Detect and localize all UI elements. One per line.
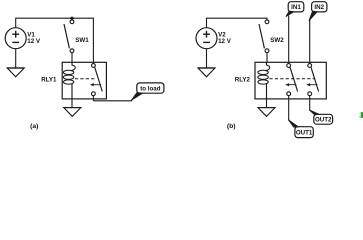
svg-text:(b): (b) xyxy=(227,123,236,130)
svg-text:SW1: SW1 xyxy=(75,37,89,44)
svg-text:12 V: 12 V xyxy=(218,38,232,45)
svg-text:to load: to load xyxy=(140,85,160,92)
svg-text:IN2: IN2 xyxy=(314,4,324,11)
svg-text:SW2: SW2 xyxy=(270,37,284,44)
svg-text:OUT2: OUT2 xyxy=(315,117,332,124)
svg-text:12 V: 12 V xyxy=(27,38,41,45)
svg-text:IN1: IN1 xyxy=(291,4,301,11)
svg-text:RLY2: RLY2 xyxy=(235,76,251,83)
svg-text:OUT1: OUT1 xyxy=(296,129,313,136)
svg-text:RLY1: RLY1 xyxy=(41,76,57,83)
svg-text:(a): (a) xyxy=(30,123,38,130)
